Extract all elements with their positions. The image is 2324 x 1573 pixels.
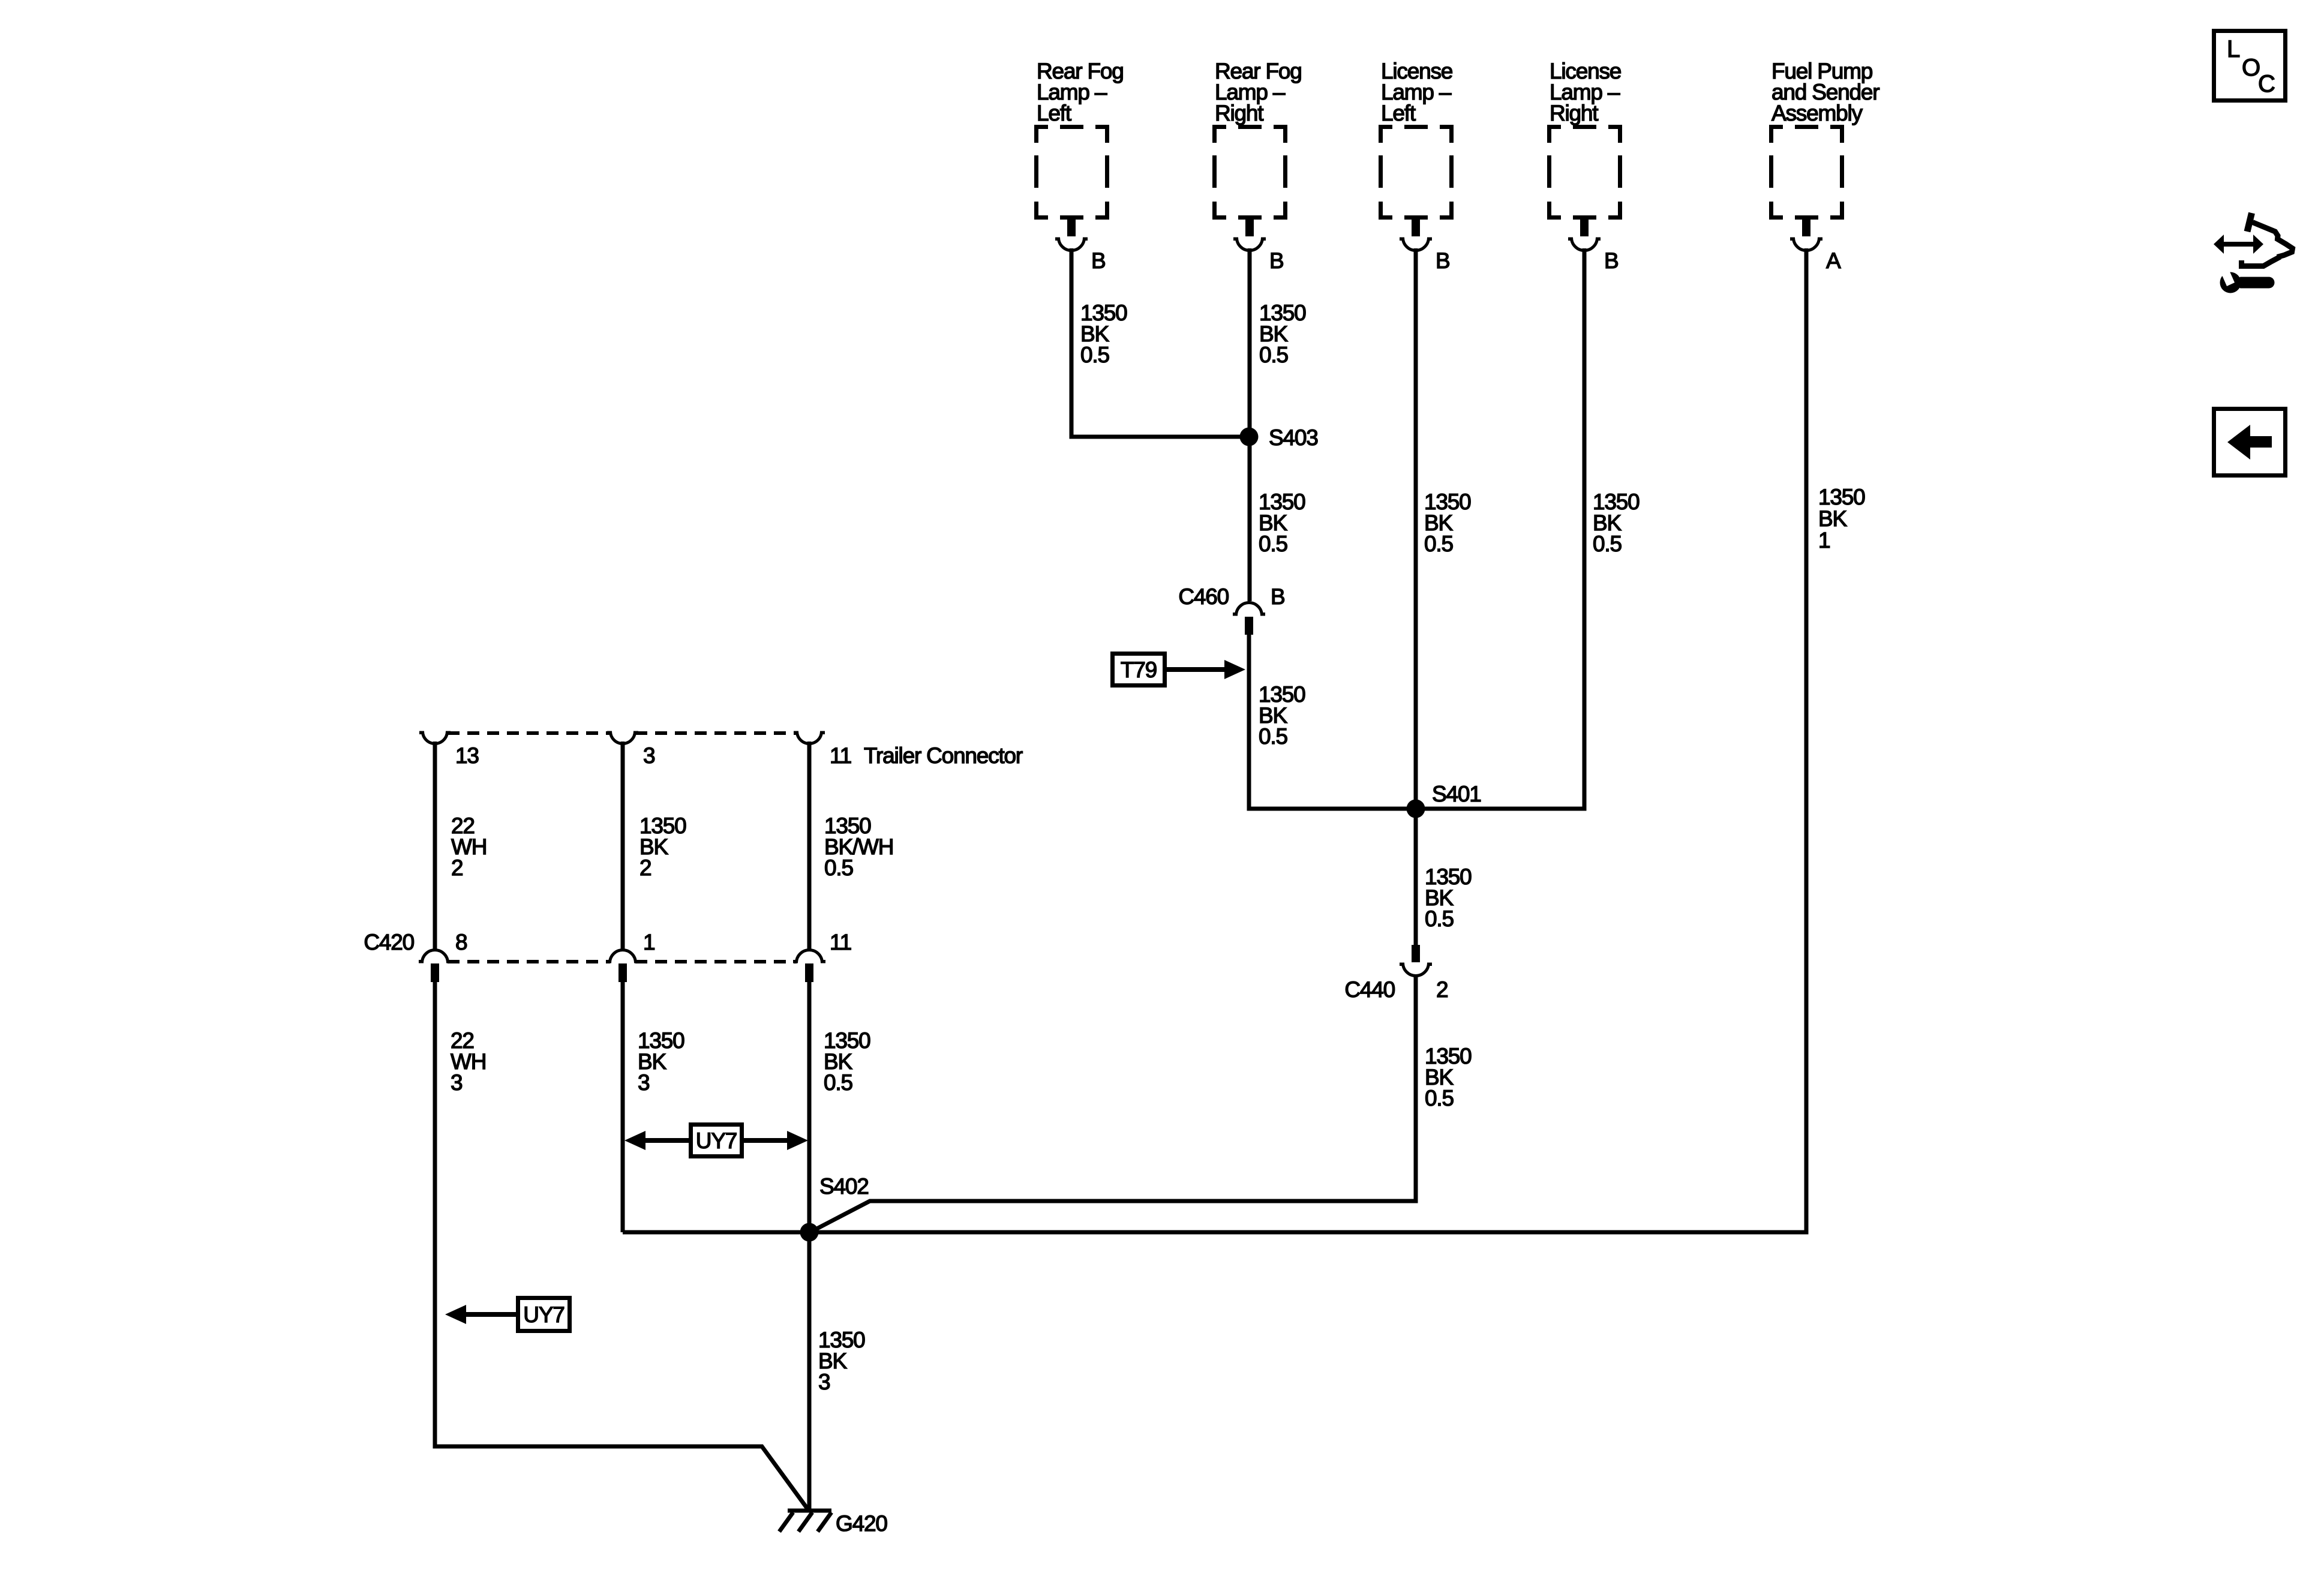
connector C440 pin	[1412, 945, 1420, 962]
connector cup C420 pin 1	[606, 950, 639, 963]
svg-text:3: 3	[818, 1370, 830, 1394]
wire label 1350 BK/WH 0.5	[824, 813, 893, 880]
wire C440 to S402	[813, 975, 1416, 1230]
svg-text:0.5: 0.5	[824, 855, 853, 880]
component fuel pump and sender assembly	[1769, 125, 1844, 220]
wire trailer 11 to C420 11	[807, 742, 812, 950]
svg-text:O: O	[2242, 55, 2260, 81]
wire C460 to S401	[1249, 635, 1416, 809]
connector C440 cup	[1400, 963, 1432, 976]
splice S402	[800, 1223, 819, 1242]
svg-text:0.5: 0.5	[1259, 532, 1287, 556]
svg-text:B: B	[1269, 248, 1283, 273]
component license lamp left	[1379, 125, 1454, 220]
svg-text:T79: T79	[1121, 658, 1157, 682]
connector cup trailer pin 3	[607, 731, 638, 744]
connector cup of fuel pump and sender assembly	[1790, 238, 1822, 251]
svg-text:0.5: 0.5	[1259, 343, 1288, 367]
wire rear fog lamp right to C460	[1248, 248, 1252, 601]
connector cup C420 pin 11	[793, 950, 825, 963]
wire label 1350 BK 2	[639, 813, 686, 880]
svg-text:2: 2	[639, 855, 651, 880]
svg-text:3: 3	[643, 743, 654, 768]
wire license lamp right to S401	[1416, 248, 1584, 809]
splice S403	[1240, 428, 1259, 446]
callout box UY7 upper	[691, 1125, 742, 1157]
wire S402 horizontal run	[623, 1230, 1806, 1235]
C420 dashed line right	[635, 960, 797, 963]
label fuel pump and sender assembly	[1771, 59, 1879, 125]
connector C460 pin	[1245, 617, 1253, 635]
svg-text:S402: S402	[819, 1174, 869, 1199]
svg-text:UY7: UY7	[696, 1128, 737, 1153]
ground G420	[779, 1511, 831, 1532]
component rear fog lamp left	[1034, 125, 1109, 220]
connector cup of license lamp right	[1568, 238, 1601, 251]
wire label 1350 BK 3 (col2)	[638, 1028, 684, 1095]
wire label 1350 BK 0.5 (rear fog right)	[1259, 301, 1306, 367]
wire label 1350 BK 3 (below S402)	[818, 1328, 865, 1394]
wire license lamp left to S401	[1414, 248, 1418, 809]
wire fuel pump to S402	[809, 248, 1806, 1232]
pin of fuel pump and sender assembly	[1802, 220, 1810, 236]
wire C420 11 through S402 to G420	[807, 982, 812, 1511]
wire label 1350 BK 0.5 (col3)	[824, 1028, 870, 1095]
wire label 22 WH 3	[451, 1028, 486, 1095]
connector pin C420 pin 1	[618, 963, 627, 982]
svg-text:B: B	[1271, 584, 1284, 609]
svg-text:S401: S401	[1432, 782, 1481, 806]
wire C420 1 to S402	[621, 982, 625, 1232]
svg-text:G420: G420	[836, 1511, 887, 1536]
icon harness routing (animal head with double arrow and wrench)	[2214, 213, 2293, 293]
component rear fog lamp right	[1212, 125, 1287, 220]
callout box UY7 lower	[518, 1298, 570, 1331]
pin of rear fog lamp right	[1245, 220, 1254, 236]
wire S401 to C440	[1414, 809, 1418, 945]
connector cup of license lamp left	[1400, 238, 1432, 251]
svg-text:11: 11	[830, 743, 851, 768]
trailer connector dashed line right	[635, 731, 797, 735]
svg-text:0.5: 0.5	[1259, 724, 1287, 749]
svg-text:S403: S403	[1269, 425, 1318, 450]
pin of license lamp right	[1580, 220, 1589, 236]
svg-text:1: 1	[1818, 528, 1830, 553]
svg-text:11: 11	[830, 930, 851, 954]
svg-text:0.5: 0.5	[824, 1070, 852, 1095]
wire label 1350 BK 1 (fuel pump)	[1818, 485, 1865, 553]
svg-text:0.5: 0.5	[1425, 1086, 1454, 1110]
svg-text:C: C	[2258, 71, 2275, 97]
label rear fog lamp right	[1215, 59, 1302, 125]
wire label 22 WH 2	[451, 813, 487, 880]
connector cup of rear fog lamp left	[1055, 238, 1088, 251]
arrow T79 to wire	[1167, 660, 1245, 679]
wire trailer 3 to C420 1	[621, 742, 625, 950]
connector C460 cup	[1233, 602, 1265, 616]
wire label 1350 BK 0.5 (below C460)	[1259, 682, 1305, 749]
svg-text:2: 2	[1436, 977, 1448, 1002]
arrow UY7 to WH wire	[445, 1305, 516, 1324]
svg-text:3: 3	[638, 1070, 649, 1095]
svg-text:Right: Right	[1215, 101, 1264, 125]
svg-text:B: B	[1604, 248, 1618, 273]
pin of license lamp left	[1412, 220, 1420, 236]
svg-text:3: 3	[451, 1070, 462, 1095]
svg-text:B: B	[1091, 248, 1105, 273]
connector pin C420 pin 8	[431, 963, 439, 982]
pin of rear fog lamp left	[1067, 220, 1076, 236]
wire label 1350 BK 0.5 (license right)	[1593, 490, 1640, 556]
svg-text:C420: C420	[364, 930, 414, 954]
callout box T79	[1113, 654, 1165, 686]
wire label 1350 BK 0.5 (rear fog left)	[1080, 301, 1127, 367]
wire label 1350 BK 0.5 (below C440)	[1425, 1044, 1472, 1110]
icon back-arrow box	[2214, 409, 2286, 476]
wire rear fog lamp left to S403	[1071, 248, 1249, 437]
svg-text:0.5: 0.5	[1425, 906, 1454, 931]
svg-text:Left: Left	[1037, 101, 1072, 125]
wire label 1350 BK 0.5 (license left)	[1424, 490, 1471, 556]
svg-text:BK: BK	[1818, 506, 1847, 531]
splice S401	[1407, 800, 1425, 818]
svg-text:0.5: 0.5	[1424, 532, 1453, 556]
svg-text:L: L	[2227, 36, 2239, 62]
svg-text:1350: 1350	[1818, 485, 1865, 509]
connector cup trailer pin 13	[419, 731, 451, 744]
svg-text:C460: C460	[1178, 584, 1229, 609]
connector cup C420 pin 8	[419, 950, 451, 963]
label rear fog lamp left	[1037, 59, 1124, 125]
C420 dashed line left	[448, 960, 610, 963]
arrow UY7 to BK wire	[624, 1131, 689, 1150]
svg-text:Left: Left	[1381, 101, 1416, 125]
svg-text:0.5: 0.5	[1080, 343, 1109, 367]
component license lamp right	[1547, 125, 1622, 220]
connector pin C420 pin 11	[805, 963, 813, 982]
trailer connector dashed line left	[448, 731, 610, 735]
icon LOC box	[2214, 31, 2286, 101]
svg-text:B: B	[1436, 248, 1449, 273]
svg-text:A: A	[1826, 248, 1841, 273]
svg-text:8: 8	[455, 930, 467, 954]
wire C420 8 to G420	[435, 982, 809, 1511]
wire label 1350 BK 0.5 (below S403)	[1259, 490, 1305, 556]
svg-text:Right: Right	[1550, 101, 1599, 125]
wire label 1350 BK 0.5 (below S401)	[1425, 864, 1472, 931]
svg-text:C440: C440	[1344, 977, 1395, 1002]
svg-text:13: 13	[455, 743, 479, 768]
connector cup trailer pin 11	[794, 731, 825, 744]
wire trailer 13 to C420 8	[433, 742, 437, 950]
connector cup of rear fog lamp right	[1233, 238, 1266, 251]
label license lamp left	[1381, 59, 1452, 125]
svg-text:UY7: UY7	[523, 1302, 564, 1327]
svg-text:Trailer Connector: Trailer Connector	[864, 743, 1023, 768]
label license lamp right	[1550, 59, 1621, 125]
arrow UY7 to BK/WH wire	[744, 1131, 808, 1150]
svg-text:1: 1	[643, 930, 654, 954]
svg-text:Assembly: Assembly	[1771, 101, 1863, 125]
svg-text:2: 2	[451, 855, 463, 880]
svg-text:0.5: 0.5	[1593, 532, 1622, 556]
